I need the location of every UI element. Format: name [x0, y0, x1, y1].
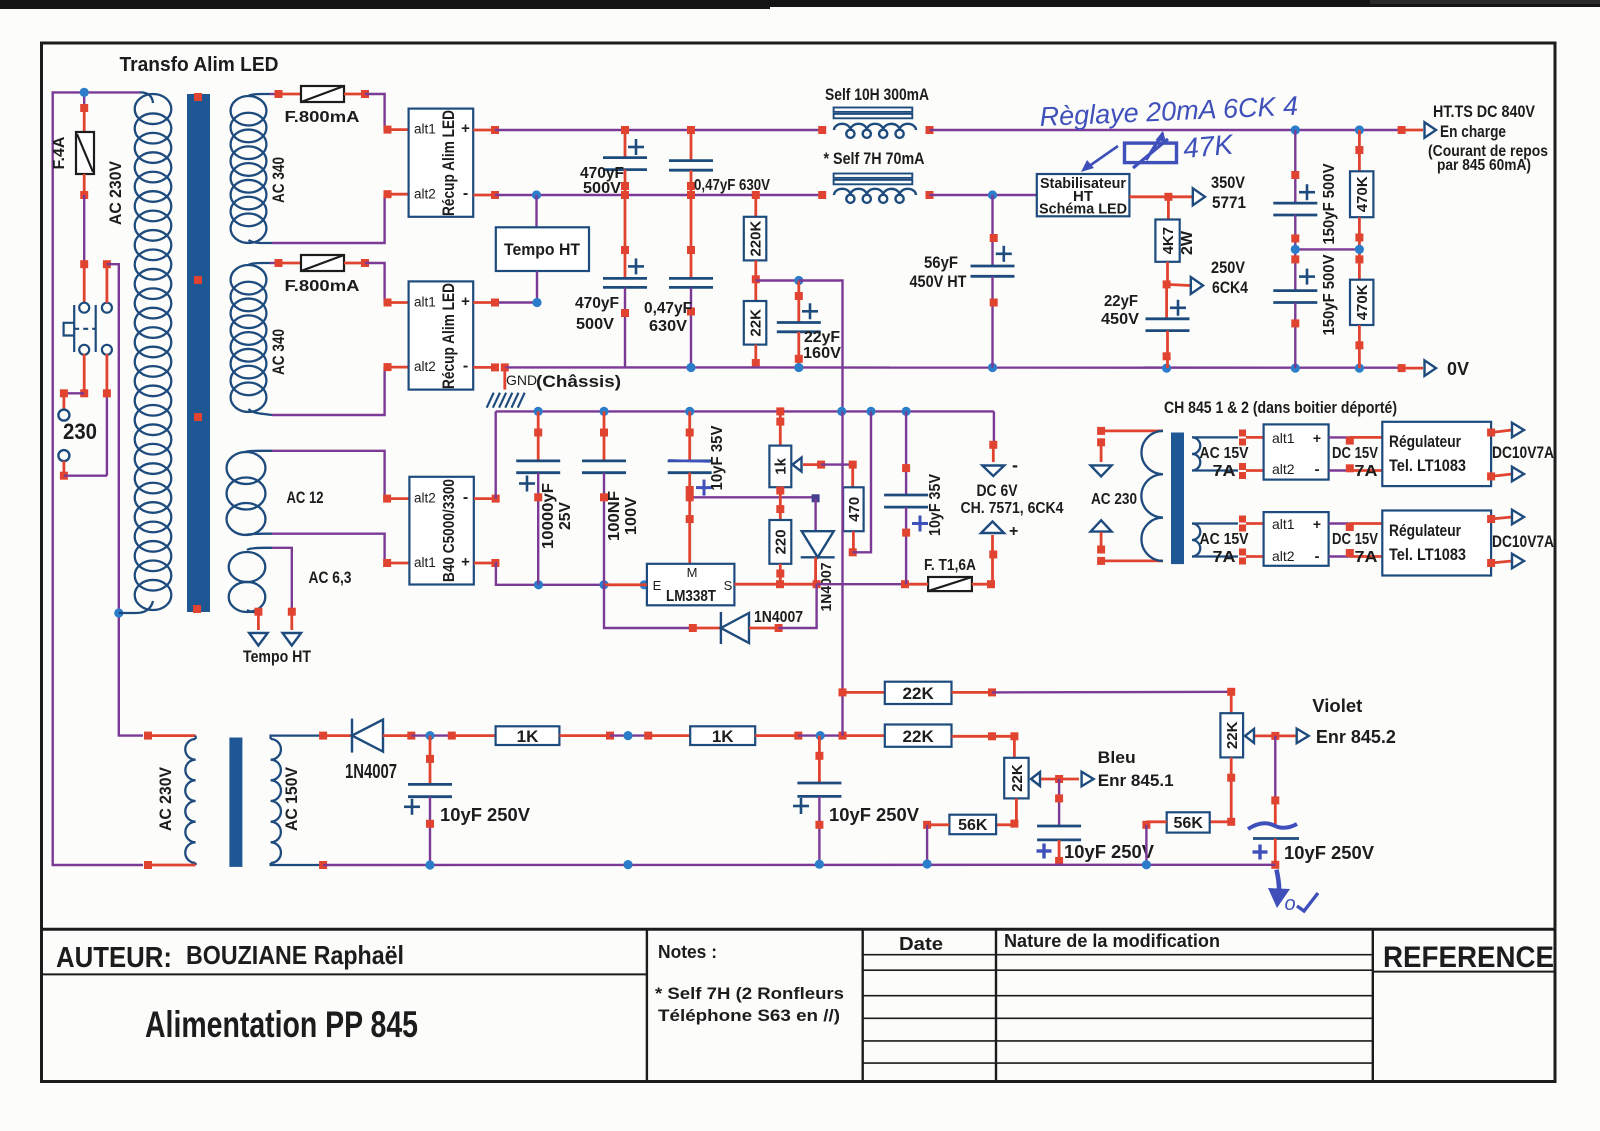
wire 230 B to switch pole2 — [60, 354, 111, 480]
svg-text:o: o — [1284, 893, 1295, 915]
wire 1K2 to 22K no2 — [755, 731, 885, 740]
aux secondary no1 — [1192, 430, 1264, 480]
svg-text:En charge: En charge — [1440, 122, 1506, 141]
wire junction to lower bus crossing — [799, 281, 843, 412]
switch actuator symbol — [64, 305, 96, 352]
wire 22K3 to 56K1 — [1010, 798, 1018, 827]
svg-text:10yF 35V: 10yF 35V — [709, 425, 726, 490]
secondary AC 340 no1 coil — [231, 94, 272, 243]
wire E pin — [604, 583, 647, 586]
schematic title Transfo Alim LED — [120, 54, 279, 76]
svg-text:F.4A: F.4A — [51, 136, 68, 169]
svg-text:22K: 22K — [747, 309, 764, 337]
svg-text:AC 150V: AC 150V — [282, 766, 301, 831]
outputs regulateur no1 — [1487, 423, 1524, 482]
wire diode to 1K no1 — [383, 731, 496, 740]
svg-text:1N4007: 1N4007 — [345, 761, 397, 783]
wire switch pole1 to 230 terminal A — [60, 354, 88, 410]
svg-text:1k: 1k — [773, 457, 790, 474]
svg-text:Bleu: Bleu — [1098, 748, 1136, 767]
svg-text:Tempo HT: Tempo HT — [504, 240, 581, 259]
label 10yF 250V no2 — [829, 805, 919, 825]
junction dot primary bottom exit — [114, 608, 123, 617]
label Courant de repos — [1428, 143, 1548, 160]
svg-text:AC 230V: AC 230V — [106, 160, 125, 225]
wire 1K1 to 1K2 — [559, 731, 690, 740]
resistor 22K — [744, 279, 767, 367]
svg-text:10000yF: 10000yF — [540, 483, 557, 549]
wire 4K7 to 250V terminal — [1167, 284, 1190, 285]
core connection squares — [193, 93, 202, 613]
svg-text:par 845 60mA): par 845 60mA) — [1437, 157, 1531, 174]
capacitor 22yF 160V — [777, 281, 821, 368]
resistor 1K no2 — [690, 726, 755, 745]
capacitor 10yF 250V no2 — [793, 736, 841, 864]
label 470yF 500V no1 — [580, 165, 624, 197]
terminal DC6V plus — [981, 522, 1018, 541]
wire fuse1 to recup1 alt1 — [344, 90, 409, 134]
svg-text:DC10V7A: DC10V7A — [1492, 443, 1554, 462]
label 10yF 35V no1 — [709, 425, 726, 490]
capacitor 10yF 250V no1 — [404, 736, 452, 865]
svg-text:56yF: 56yF — [924, 253, 958, 272]
svg-text:REFERENCE: REFERENCE — [1383, 941, 1554, 974]
label 10yF 250V no3 — [1064, 842, 1154, 862]
block alt no2 — [1264, 512, 1329, 566]
svg-text:470K: 470K — [1354, 284, 1371, 320]
resistor 22K no4 pot — [1220, 692, 1243, 758]
svg-text:160V: 160V — [803, 345, 841, 362]
svg-text:Enr 845.1: Enr 845.1 — [1098, 771, 1174, 790]
svg-text:AC 230V: AC 230V — [156, 766, 175, 831]
svg-text:alt1: alt1 — [414, 295, 436, 310]
svg-text:Alimentation PP 845: Alimentation PP 845 — [145, 1004, 418, 1045]
label Nature de la modification — [1004, 931, 1220, 951]
block LM338T — [647, 564, 735, 606]
svg-text:DC 6V: DC 6V — [977, 481, 1019, 500]
pot wiper arrow 1k — [793, 458, 853, 472]
capacitor 22yF 450V — [1146, 284, 1190, 368]
label F. T1,6A — [924, 557, 976, 574]
label AC 340 no1 — [269, 157, 288, 203]
svg-text:DC 15V: DC 15V — [1332, 531, 1378, 548]
svg-text:1N4007: 1N4007 — [754, 609, 803, 626]
svg-text:Transfo Alim LED: Transfo Alim LED — [120, 54, 279, 76]
svg-text:7A: 7A — [1355, 463, 1379, 480]
junction dots bus E — [534, 580, 649, 589]
svg-text:Tempo HT: Tempo HT — [243, 647, 312, 666]
main transformer primary AC 230V coil — [119, 92, 171, 613]
svg-text:* Self 7H 70mA: * Self 7H 70mA — [824, 149, 925, 168]
svg-text:7A: 7A — [1355, 549, 1379, 566]
svg-text:Notes :: Notes : — [658, 942, 717, 962]
label REFERENCE — [1383, 941, 1554, 974]
switch pole2 contacts — [102, 303, 112, 355]
svg-text:S: S — [724, 578, 733, 593]
secondary AC 12 coil — [227, 451, 272, 535]
wire 220K-22K junction to 22yF160V — [756, 276, 804, 285]
resistor 220 — [769, 497, 791, 584]
junction dots bus D — [534, 407, 911, 416]
pot 22K no3 — [1004, 758, 1028, 799]
handwriting Reglage 20mA 6CK4 — [1039, 91, 1299, 132]
svg-text:+: + — [1313, 430, 1321, 446]
label AC 6,3 — [309, 568, 352, 587]
svg-text:F.800mA: F.800mA — [285, 278, 361, 295]
wire DC6V plus to fuse — [989, 535, 997, 584]
resistor 22K no1 — [885, 682, 952, 704]
svg-text:+: + — [1313, 516, 1321, 532]
svg-text:630V: 630V — [649, 318, 687, 335]
resistor 56K no1 — [949, 815, 1014, 835]
pot wiper Violet — [1245, 729, 1297, 743]
label 56yF 450V HT — [910, 253, 968, 291]
svg-text:Régulateur: Régulateur — [1389, 521, 1461, 540]
svg-text:+: + — [461, 120, 470, 137]
bus D minus rail — [496, 410, 994, 412]
main transformer core — [187, 94, 210, 612]
fuse F.800mA no1 — [301, 86, 344, 102]
inductor Self 7H 70mA — [818, 174, 933, 203]
wire F.4A to switch pole1 — [80, 195, 88, 303]
label DC 15V 7A no1 — [1332, 445, 1378, 480]
label 0,47yF 630V no2 — [644, 300, 692, 335]
label Tempo HT — [243, 647, 312, 666]
label Self 7H 70mA — [824, 149, 925, 168]
outputs regulateur no2 — [1487, 510, 1524, 569]
terminal 230 A — [58, 410, 69, 421]
label AC 230V bias — [156, 766, 175, 831]
svg-text:-: - — [1315, 548, 1320, 565]
svg-text:47K: 47K — [1182, 129, 1236, 164]
svg-text:Schéma LED: Schéma LED — [1039, 201, 1127, 218]
label AC 340 no2 — [269, 329, 288, 375]
label CH 7571 6CK4 — [961, 500, 1064, 517]
svg-text:AC 15V: AC 15V — [1200, 531, 1249, 548]
svg-text:7A: 7A — [1213, 549, 1237, 566]
wire 22K1 input — [843, 691, 885, 694]
svg-text:-: - — [1012, 455, 1018, 475]
label Violet — [1312, 696, 1362, 716]
svg-text:alt1: alt1 — [414, 122, 436, 137]
svg-text:22K: 22K — [903, 727, 935, 746]
terminal 230 B — [58, 450, 69, 461]
block Recup Alim LED no1 — [409, 109, 474, 217]
terminal 250V 6CK4 — [1191, 277, 1203, 294]
capacitor 10000yF 25V — [516, 411, 560, 584]
wire AC63 bottom to Tempo terminal — [254, 608, 262, 630]
svg-text:Violet: Violet — [1312, 696, 1362, 716]
label AC 15V 7A no2 — [1200, 531, 1249, 566]
wire self7H to stabilisateur — [930, 194, 1037, 196]
svg-text:-: - — [463, 185, 468, 202]
diode 1N4007 feedback — [604, 584, 817, 644]
block Stabilisateur HT — [1037, 174, 1130, 218]
wire bus D to DC6V minus — [989, 411, 997, 462]
bias ground bus — [323, 859, 1275, 869]
svg-text:LM338T: LM338T — [666, 588, 716, 605]
svg-text:450V: 450V — [1101, 311, 1139, 328]
capacitor 10yF 35V no1 — [668, 411, 712, 497]
label AUTEUR — [56, 942, 172, 974]
label 150yF 500V no2 — [1321, 254, 1338, 335]
svg-text:22yF: 22yF — [1104, 293, 1138, 310]
label par 845 60mA — [1437, 157, 1531, 174]
svg-text:10yF 250V: 10yF 250V — [829, 805, 919, 825]
wires alt1 to regulateur no1 — [1329, 437, 1383, 473]
bias transformer primary AC 230V — [144, 732, 196, 869]
diode 1N4007 vertical — [801, 494, 835, 584]
capacitor 0,47yF 630V no2 — [669, 191, 713, 368]
wire HT bus self10H to terminal — [930, 126, 1424, 134]
label DC 15V 7A no2 — [1332, 531, 1378, 566]
svg-text:100V: 100V — [623, 497, 640, 535]
svg-text:10yF 250V: 10yF 250V — [1284, 843, 1374, 863]
wire B40 minus to bus D — [474, 411, 500, 502]
svg-text:150yF 500V: 150yF 500V — [1321, 163, 1338, 244]
svg-text:100NF: 100NF — [606, 491, 623, 541]
svg-text:350V: 350V — [1211, 173, 1246, 192]
block alt no1 — [1264, 424, 1329, 479]
svg-text:Self 10H 300mA: Self 10H 300mA — [825, 85, 929, 104]
svg-text:22K: 22K — [1009, 764, 1026, 792]
svg-text:1K: 1K — [517, 727, 539, 746]
label 1N4007 feedback — [754, 609, 803, 626]
svg-text:22K: 22K — [1224, 721, 1241, 749]
svg-text:Régulateur: Régulateur — [1389, 432, 1461, 451]
svg-text:AUTEUR:: AUTEUR: — [56, 942, 172, 974]
resistor 1K no1 — [496, 726, 560, 745]
capacitor 150yF 500V no2 — [1273, 249, 1317, 368]
capacitor 100NF 100V — [582, 411, 626, 584]
svg-text:-: - — [1315, 461, 1320, 478]
resistor 22K no2 — [885, 725, 952, 747]
wires alt to regulateur no2 — [1329, 523, 1383, 557]
handwriting 47K — [1182, 129, 1236, 164]
terminal Violet — [1297, 729, 1309, 744]
svg-text:CH 845 1 & 2 (dans boitier dép: CH 845 1 & 2 (dans boitier déporté) — [1164, 398, 1397, 417]
resistor 470 — [843, 461, 864, 557]
svg-text:F.800mA: F.800mA — [285, 109, 361, 126]
wire AC63 top to Tempo terminal — [272, 548, 296, 630]
bus S rail — [734, 580, 909, 588]
label 1N4007 bias — [345, 761, 397, 783]
label Notes — [658, 942, 717, 962]
label Self 10H 300mA — [825, 85, 929, 104]
svg-text:0,47yF: 0,47yF — [644, 300, 692, 317]
svg-text:450V HT: 450V HT — [910, 272, 968, 291]
terminal 0V — [1425, 360, 1437, 376]
aux transformer core — [1171, 433, 1184, 565]
svg-text:470: 470 — [846, 497, 863, 522]
title block grid — [42, 929, 1556, 1081]
terminal AC230 aux top — [1091, 427, 1112, 477]
svg-text:220K: 220K — [747, 221, 764, 257]
inductor Self 10H 300mA — [818, 108, 933, 138]
capacitor 10yF 250V no3 Bleu — [1037, 779, 1082, 865]
label AC 230V main primary — [106, 160, 125, 225]
junction dots HT bus — [1291, 125, 1364, 134]
svg-text:10yF 250V: 10yF 250V — [1064, 842, 1154, 862]
capacitor 10yF 35V no2 — [884, 411, 928, 584]
svg-text:BOUZIANE Raphaël: BOUZIANE Raphaël — [186, 940, 404, 970]
junction dot top-left — [80, 88, 89, 97]
label 100NF 100V — [606, 491, 640, 541]
label Date — [899, 934, 943, 954]
capacitor 0,47yF 630V no1 — [669, 126, 713, 195]
junction dot tempo top — [532, 190, 541, 199]
block Regulateur no2 — [1382, 511, 1491, 576]
note Self 7H — [655, 984, 844, 1003]
scanner top bar — [0, 0, 1600, 9]
svg-text:10yF 35V: 10yF 35V — [927, 474, 944, 536]
svg-text:22K: 22K — [903, 684, 935, 703]
note Telephone S63 — [658, 1006, 840, 1025]
svg-text:alt2: alt2 — [414, 187, 436, 202]
handwriting 0V arrow — [1268, 870, 1318, 915]
svg-text:Téléphone S63 en //): Téléphone S63 en //) — [658, 1006, 840, 1025]
block B40 C5000/3300 — [409, 477, 473, 585]
wire HT bus recup1 plus — [473, 126, 822, 134]
label 10yF 250V no4 — [1284, 843, 1374, 863]
handwriting arrow to stabilisateur — [1081, 146, 1118, 172]
wire 56K1 to bus — [923, 821, 949, 864]
svg-text:6CK4: 6CK4 — [1212, 278, 1248, 297]
svg-text:AC 340: AC 340 — [269, 329, 288, 375]
svg-text:Récup Alim LED: Récup Alim LED — [439, 283, 458, 389]
handwriting potentiometer — [1125, 131, 1177, 168]
wire switch pole2 to bottom transformer primary — [103, 260, 143, 735]
svg-text:470yF: 470yF — [575, 295, 619, 312]
wire 22K4 to 56K2 — [1227, 757, 1235, 825]
aux transformer primary — [1101, 431, 1163, 561]
wire 0V bus — [473, 363, 1423, 372]
label 470yF 500V no2 — [575, 295, 619, 333]
wire AC340-1 top to fuse — [270, 90, 301, 98]
wire Tempo HT to recup2 alt1 — [473, 271, 541, 307]
bias transformer core — [229, 738, 242, 867]
terminal Bleu — [1082, 772, 1094, 787]
svg-text:AC 15V: AC 15V — [1200, 445, 1249, 462]
secondary AC 6,3 coil — [229, 548, 272, 612]
svg-text:56K: 56K — [958, 817, 988, 834]
svg-text:Date: Date — [899, 934, 943, 954]
svg-text:HT.TS DC 840V: HT.TS DC 840V — [1433, 102, 1536, 121]
terminal Tempo HT left — [249, 633, 268, 646]
bias transformer secondary AC 150V — [271, 732, 328, 869]
svg-text:230: 230 — [63, 419, 97, 444]
svg-text:alt1: alt1 — [1272, 430, 1295, 446]
svg-text:1K: 1K — [712, 727, 734, 746]
terminal 350V 5771 — [1193, 188, 1205, 205]
svg-text:-: - — [463, 489, 468, 506]
wire secondary to diode — [323, 734, 352, 737]
label En charge — [1440, 122, 1506, 141]
label GND — [506, 372, 537, 388]
label AC 230 aux — [1091, 491, 1137, 508]
label AC 15V 7A no1 — [1200, 445, 1249, 480]
label 22yF 450V — [1101, 293, 1139, 328]
label Enr 845.1 — [1098, 771, 1174, 790]
label 10yF 35V no2 — [927, 474, 944, 536]
label 0V — [1447, 359, 1469, 379]
secondary AC 340 no2 coil — [231, 263, 272, 415]
label 2W — [1179, 230, 1196, 255]
wire stabilisateur out — [1129, 193, 1192, 201]
svg-text:CH. 7571, 6CK4: CH. 7571, 6CK4 — [961, 500, 1064, 517]
svg-text:Récup Alim LED: Récup Alim LED — [439, 110, 458, 216]
label 10000yF 25V — [540, 483, 574, 549]
label Bleu — [1098, 748, 1136, 767]
svg-text:500V: 500V — [576, 316, 614, 333]
svg-text:* Self 7H (2 Ronfleurs: * Self 7H (2 Ronfleurs — [655, 984, 844, 1003]
junction dots 0V bus — [686, 363, 1364, 373]
capacitor 10yF 250V no4 Violet — [1248, 736, 1299, 869]
svg-text:alt2: alt2 — [414, 491, 436, 506]
svg-text:Nature de la modification: Nature de la modification — [1004, 931, 1220, 951]
svg-text:5771: 5771 — [1212, 193, 1246, 212]
svg-text:+: + — [1009, 523, 1018, 540]
svg-text:alt2: alt2 — [1272, 461, 1295, 477]
svg-text:+: + — [461, 293, 470, 310]
terminal Tempo HT right — [283, 633, 302, 646]
label BOUZIANE Raphael — [186, 940, 404, 970]
svg-text:220: 220 — [773, 529, 790, 554]
terminal HT.TS DC 840V — [1425, 122, 1437, 138]
label 22yF 160V — [803, 329, 841, 362]
block Tempo HT — [496, 195, 589, 271]
label Alimentation PP 845 — [145, 1004, 418, 1045]
svg-text:2W: 2W — [1179, 230, 1196, 255]
svg-text:B40 C5000/3300: B40 C5000/3300 — [441, 479, 458, 582]
label F.800mA no1 — [285, 109, 361, 126]
label AC 150V — [282, 766, 301, 831]
label HT.TS DC 840V — [1433, 102, 1536, 121]
block Regulateur no1 — [1382, 422, 1491, 486]
label DC10V7A no1 — [1492, 443, 1554, 462]
svg-text:25V: 25V — [557, 502, 574, 530]
svg-text:-: - — [463, 358, 468, 375]
svg-text:Enr 845.2: Enr 845.2 — [1316, 727, 1396, 747]
label 1N4007 vertical — [818, 563, 835, 612]
svg-text:Tel. LT1083: Tel. LT1083 — [1389, 545, 1466, 564]
capacitor 470yF 500V no1 — [603, 126, 647, 195]
wire AC12 top to B40 alt2 — [272, 451, 409, 503]
svg-text:56K: 56K — [1174, 815, 1204, 832]
switch pole1 contacts — [79, 303, 89, 355]
block Recup Alim LED no2 — [409, 281, 474, 389]
svg-text:alt1: alt1 — [1272, 516, 1295, 532]
wire 22K1 to 22K4 — [952, 688, 1236, 697]
resistor 470K no2 — [1350, 249, 1373, 368]
label 350V 5771 — [1211, 173, 1246, 212]
svg-text:AC 230: AC 230 — [1091, 491, 1137, 508]
label Enr 845.2 — [1316, 727, 1396, 747]
wire bus recup1 minus — [473, 191, 822, 199]
ground GND chassis — [487, 367, 525, 407]
svg-text:GND: GND — [506, 372, 537, 388]
fuse F.4A — [51, 104, 94, 199]
wire riser to 22K rows — [839, 411, 847, 735]
label DC 6V — [977, 481, 1019, 500]
capacitor 150yF 500V no1 — [1273, 130, 1317, 249]
label 10yF 250V no1 — [440, 805, 530, 825]
wire 56yF branch — [971, 195, 1015, 368]
label 230 — [63, 419, 97, 444]
wire 150yF to 470K midlink — [1291, 245, 1364, 254]
wire B40 plus to bus E — [474, 559, 642, 585]
wire AC12 bottom to B40 alt1 — [272, 534, 409, 567]
